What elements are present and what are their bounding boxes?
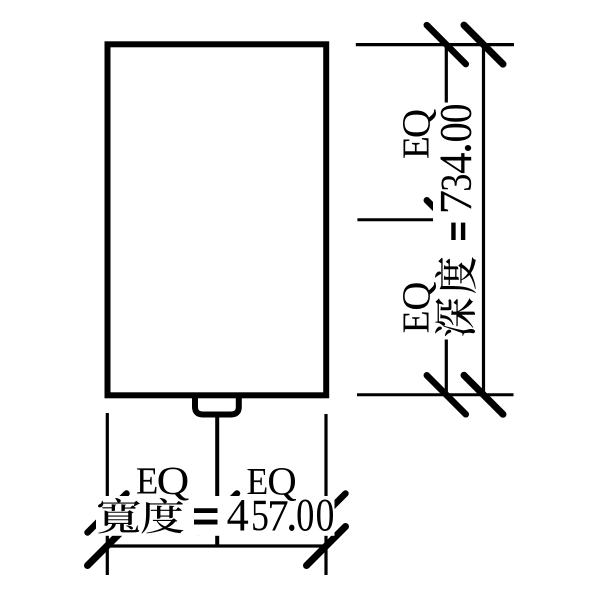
equals sign rotated (depth label) (451, 223, 455, 240)
text 4 (228, 500, 249, 531)
text 0 rotated (441, 105, 472, 122)
right extension line (324, 414, 327, 575)
text 0 rotated (441, 124, 472, 141)
text EQ1 'Q' (159, 468, 189, 501)
depth tick bottom (464, 375, 503, 414)
equals sign (width label) (194, 508, 218, 513)
text kuan (width char1) (98, 498, 140, 534)
left extension line (106, 413, 109, 575)
text EQ1 'E' (137, 468, 157, 493)
text EQ2 'Q' (269, 468, 296, 501)
text du (depth char2) rotated (435, 257, 476, 293)
text 7 (270, 501, 288, 530)
EQ tick bottom (427, 375, 466, 414)
EQ dimension line (hidden behind depth text) (445, 45, 448, 395)
text period (289, 525, 295, 531)
middle extension line (357, 218, 476, 221)
text shen (depth char1) rotated (435, 298, 475, 336)
width tick left (88, 527, 127, 566)
text EQ4 'Q' rotated (403, 282, 436, 309)
center extension line from notch (215, 416, 219, 546)
depth text background mask (433, 103, 478, 340)
depth tick top (464, 25, 503, 64)
width text background mask (96, 496, 335, 536)
text 0 (317, 500, 333, 532)
text 5 (253, 501, 267, 531)
text EQ3 'E' rotated (404, 138, 429, 158)
width tick right (307, 527, 346, 566)
text EQ2 'E' (248, 469, 267, 494)
text EQ3 'Q' rotated (403, 110, 436, 137)
width dimension line (105, 544, 328, 547)
text EQ4 'E' rotated (404, 312, 429, 332)
text 0 (298, 500, 314, 532)
bottom extension line (357, 393, 514, 396)
EQ tick middle (427, 200, 466, 239)
drain tab / notch at bottom center (195, 396, 239, 415)
sink/panel rectangle outline (457 x 734) (108, 44, 327, 395)
text period rotated (465, 145, 471, 151)
depth dimension line (482, 45, 485, 395)
text du (width char2) (142, 498, 184, 534)
top extension line (356, 43, 514, 46)
text 3 rotated (442, 175, 472, 190)
EQ tick right (307, 494, 346, 533)
EQ dimension line (hidden behind width text) (107, 512, 326, 515)
EQ tick top (427, 25, 466, 64)
EQ tick middle (198, 494, 237, 533)
text 7 rotated (441, 191, 471, 211)
text 4 rotated (441, 153, 472, 173)
EQ tick left (88, 494, 127, 533)
